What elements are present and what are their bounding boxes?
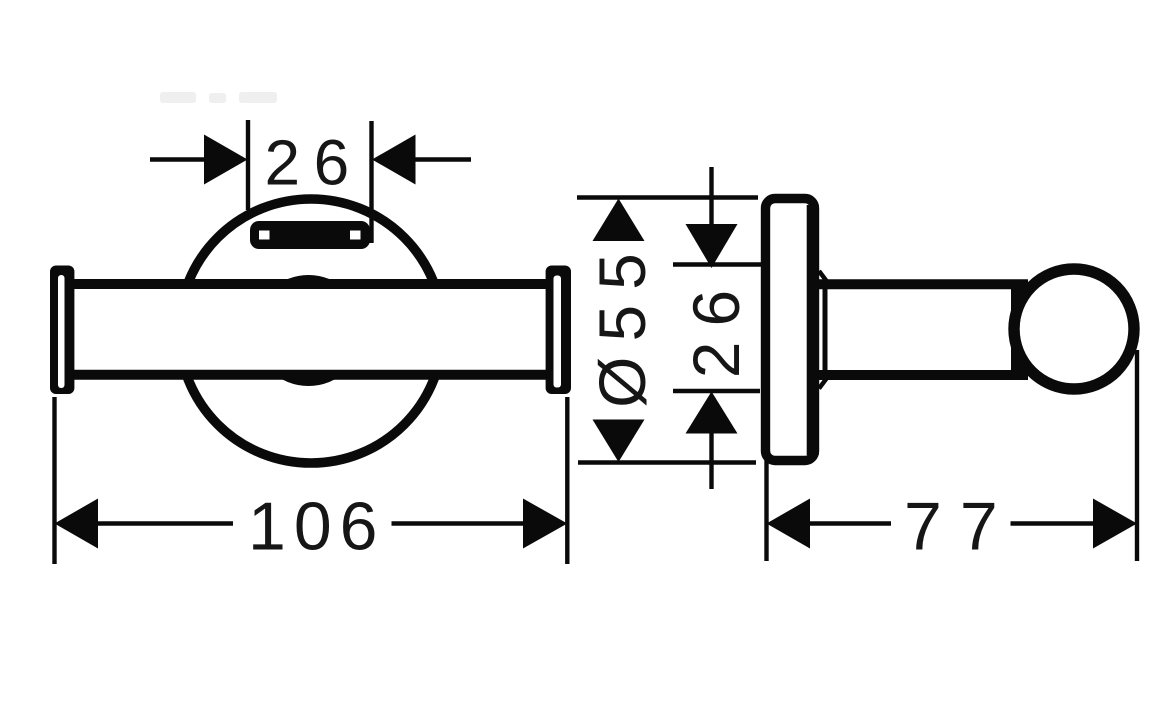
side view: knob ball interior (1020, 275, 1129, 384)
dim 26 side: bottom arrowhead (686, 392, 738, 434)
svg-text:77: 77 (904, 489, 1016, 565)
side view: arm bottom edge (818, 370, 1028, 380)
dim 77: dimension line right segment (1011, 521, 1096, 525)
dim diameter 55: bottom extension line (578, 460, 756, 464)
dim 26 top: left leader line (150, 157, 206, 161)
dim 26 top: right extension line (369, 121, 373, 243)
dim 106: left arrowhead (55, 499, 99, 549)
dim diameter 55: bottom arrowhead (593, 420, 645, 463)
dim diameter 55: top arrowhead (593, 199, 645, 242)
watermark remnant smudges (160, 92, 277, 103)
front view: bar top edge (70, 279, 548, 289)
dim 26 side: bottom leader line (709, 431, 713, 489)
side view: collar flare bottom (819, 379, 827, 389)
dim diameter 55: top extension line (577, 195, 758, 199)
dim 26 side: top leader line (709, 167, 713, 226)
side view: collar flare top (819, 271, 827, 281)
side view: arm-ball junction fill (1011, 289, 1030, 371)
dim 106: dimension line left segment (96, 521, 233, 525)
front view: slot hole left (259, 231, 270, 240)
dim 77: dimension line left segment (808, 521, 891, 525)
dim 26 side: bottom tick line (673, 389, 760, 393)
dim 77: left extension line (764, 460, 768, 561)
front view: slot hole right (350, 231, 361, 240)
front view: left cap highlight slit (58, 275, 65, 388)
side view: arm top edge (818, 279, 1028, 289)
dim 77: right arrowhead (1093, 499, 1137, 549)
dim 77: right extension line (1135, 350, 1139, 561)
svg-text:Ø55: Ø55 (585, 238, 659, 408)
dim 26 top: right arrowhead (372, 135, 416, 185)
svg-text:26: 26 (265, 127, 363, 199)
front view: bar interior fill (62, 289, 558, 371)
dim 106: left extension line (52, 397, 56, 564)
front view: right end cap (546, 266, 571, 395)
front view: right cap highlight slit (554, 276, 562, 388)
dim 106: dimension line right segment (392, 521, 525, 525)
front view: mounting slot (250, 221, 370, 249)
dim 26 top: right leader line (414, 157, 471, 161)
side view: plate right thick band (807, 205, 819, 455)
front view: bar bottom edge (70, 370, 548, 380)
front view: backplate circle (179, 199, 443, 463)
side view: wall plate (766, 199, 815, 461)
front view: left end cap (50, 266, 74, 395)
dim 106: right extension line (565, 397, 569, 564)
dim 26 side: top arrowhead (686, 224, 738, 268)
dim 26 side: top tick line (673, 262, 762, 266)
side view: knob ball ring (1014, 269, 1134, 389)
svg-text:26: 26 (679, 275, 753, 378)
dim 77: left arrowhead (767, 499, 811, 549)
dim 106: right arrowhead (523, 499, 567, 549)
dim 26 top: left extension line (246, 120, 250, 210)
dim 26 top: left arrowhead (204, 135, 248, 185)
side view: arm start edge line (823, 289, 828, 370)
svg-text:106: 106 (248, 489, 385, 565)
front view: screw cover circle (257, 279, 361, 383)
